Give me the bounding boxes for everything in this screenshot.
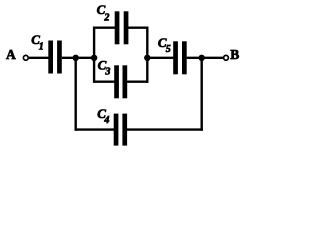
junction dot node 3 [144, 55, 150, 61]
wire C5 to terminal B [187, 57, 223, 59]
wire C4 branch bottom right [127, 128, 203, 130]
svg-text:B: B [230, 47, 239, 62]
wire loop left vertical [93, 27, 95, 83]
label C3 [98, 58, 111, 78]
svg-text:1: 1 [39, 42, 44, 53]
wire bottom branch right [127, 80, 148, 82]
label C5 [158, 35, 171, 55]
capacitor C5 [173, 41, 187, 74]
capacitor C2 [115, 11, 129, 44]
junction dot node 2 [91, 55, 97, 61]
capacitor C1 [48, 41, 62, 74]
svg-text:5: 5 [166, 44, 171, 55]
wire top branch left [94, 27, 115, 29]
wire node 3 to C5 [147, 57, 173, 59]
svg-text:3: 3 [104, 67, 110, 78]
terminal B [224, 55, 229, 60]
capacitor C3 [114, 65, 127, 98]
junction dot node 1 [73, 55, 79, 61]
wire bottom branch left [94, 80, 115, 82]
wire C4 branch bottom left [75, 128, 115, 130]
wire A to C1 [29, 57, 49, 59]
wire loop right vertical [146, 27, 148, 83]
wire top branch right [128, 27, 147, 29]
wire C4 branch left vertical [74, 58, 76, 131]
terminal A [23, 55, 28, 60]
svg-text:4: 4 [103, 115, 109, 126]
wire C1 to node [62, 57, 94, 59]
label C2 [97, 2, 110, 23]
capacitor C4 [114, 114, 127, 146]
junction dot node 4 [199, 55, 205, 61]
wire C4 branch right vertical [200, 58, 202, 131]
svg-text:A: A [6, 47, 16, 62]
label C1 [31, 32, 44, 53]
svg-text:2: 2 [103, 12, 109, 23]
label C4 [97, 106, 109, 126]
